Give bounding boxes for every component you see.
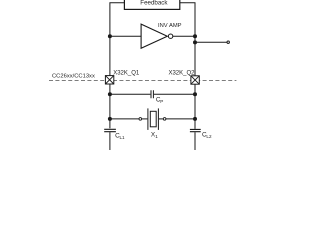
wire: Cp row left	[110, 93, 150, 95]
svg-text:L2: L2	[206, 134, 212, 139]
IC pin X32K_Q2	[168, 71, 199, 85]
svg-text:L1: L1	[120, 135, 126, 140]
chip boundary dashed line	[49, 80, 236, 82]
wire: inverter input	[110, 35, 141, 37]
junction node: Cp left	[108, 92, 112, 96]
capacitor C_L2	[190, 129, 212, 139]
wire: crystal row left	[110, 118, 139, 120]
svg-text:P: P	[160, 99, 163, 104]
wire: left rail below square	[109, 84, 111, 128]
wire: left rail middle	[109, 36, 111, 75]
wire: Cp row right	[154, 93, 195, 95]
op-amp U1 (INV AMP inverter)	[141, 23, 182, 48]
svg-text:Feedback: Feedback	[140, 0, 168, 6]
junction node: crystal left	[108, 117, 112, 121]
wire: right rail bottom	[194, 132, 196, 150]
wire: left rail top to feedback	[110, 3, 125, 37]
junction node: crystal right	[193, 117, 197, 121]
wire: crystal row right	[166, 118, 195, 120]
capacitor C_P	[151, 90, 163, 104]
svg-text:X32K_Q1: X32K_Q1	[113, 71, 140, 77]
wire: output branch	[195, 41, 227, 43]
capacitor C_L1	[104, 129, 125, 140]
wire: left rail bottom	[109, 132, 111, 150]
junction node: Cp right	[193, 92, 197, 96]
junction node: left inverter input	[108, 34, 112, 38]
wire: right rail middle	[194, 36, 196, 76]
wire: feedback to right rail top	[180, 3, 195, 36]
svg-text:CC26xx/CC13xx: CC26xx/CC13xx	[52, 74, 95, 80]
junction node: right inverter output	[193, 34, 197, 38]
wire: right rail below square	[194, 84, 196, 129]
IC pin X32K_Q1	[105, 71, 139, 84]
terminal: output pin	[227, 41, 229, 43]
feedback block	[124, 0, 179, 9]
wire: inverter output	[173, 35, 195, 37]
junction node: output branch	[193, 40, 197, 44]
crystal X1	[139, 108, 166, 139]
svg-text:1: 1	[155, 134, 158, 139]
svg-text:INV AMP: INV AMP	[158, 23, 182, 29]
svg-text:X32K_Q2: X32K_Q2	[168, 71, 195, 77]
